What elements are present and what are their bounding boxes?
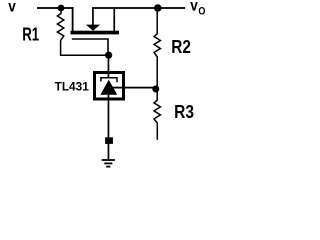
junction dot E (anode wire) — [105, 137, 113, 144]
transistor Q1 base bar — [71, 31, 120, 35]
U1 internal anode triangle — [100, 80, 117, 95]
transistor Q1 collector lead — [113, 8, 115, 31]
U1 internal cathode wire — [108, 74, 110, 79]
junction dot A (v rail / R1 top) — [58, 5, 65, 12]
svg-text:TL431: TL431 — [55, 80, 89, 94]
junction dot B (output rail / R2 top) — [154, 4, 162, 12]
svg-text:O: O — [198, 6, 205, 18]
resistor R2 — [154, 8, 160, 86]
svg-text:R2: R2 — [171, 36, 191, 57]
wire cathode node down to U1 box — [108, 55, 110, 74]
svg-text:v: v — [8, 0, 16, 16]
U1 internal cathode bar with bent ends — [101, 78, 117, 83]
junction dot C (divider node R2/R3/REF) — [152, 86, 159, 93]
svg-text:R3: R3 — [174, 101, 194, 122]
transistor Q1 emitter arrow — [86, 25, 100, 31]
svg-text:v: v — [190, 0, 198, 15]
wire Q1 base lead to cathode node — [72, 39, 108, 52]
wire stub from input rail down to Q1 base bar — [72, 8, 74, 31]
ground — [102, 160, 115, 167]
op-amp U1 TL431 box — [95, 73, 124, 100]
junction dot D (TL431 cathode node) — [105, 52, 112, 59]
wire input rail from v — [37, 7, 74, 9]
svg-text:R1: R1 — [22, 23, 39, 44]
U1 anode wire down to ground — [108, 95, 110, 161]
transistor Q1 emitter lead — [92, 8, 94, 25]
resistor R1 — [57, 8, 108, 55]
wire output rail — [92, 7, 185, 9]
U1 reference wire to divider — [112, 87, 156, 89]
resistor R3 — [154, 89, 160, 140]
